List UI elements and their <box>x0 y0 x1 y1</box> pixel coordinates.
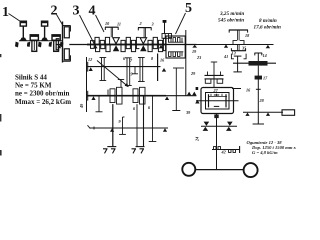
gear 13 lower <box>233 63 241 72</box>
svg-text:ne = 2300 obr/min: ne = 2300 obr/min <box>15 90 69 98</box>
crank pin 5 <box>60 42 64 48</box>
svg-text:14: 14 <box>263 53 267 58</box>
scan artifact left edge 2 <box>0 114 1 122</box>
upper PTO gear cap <box>229 30 248 40</box>
pto input stem above range box <box>163 20 167 34</box>
countershaft right bearing <box>162 68 166 72</box>
pto bearing 1 <box>245 113 249 116</box>
stem down long 4 <box>143 96 145 147</box>
stem with cap at 152 <box>149 96 157 142</box>
arrowhead of diagonal leader <box>125 83 129 87</box>
range box upper gear teeth <box>168 38 183 43</box>
scan artifact left edge 1 <box>0 54 1 57</box>
gearbox housing left wall <box>86 57 88 112</box>
label 5 <box>185 1 192 16</box>
svg-text:8 m/min: 8 m/min <box>259 18 277 24</box>
bearing left of pto gear <box>224 44 228 47</box>
bull gear bowtie left <box>203 122 210 131</box>
gear T1 on main shaft (cap) <box>105 27 119 37</box>
range box lower gear teeth <box>168 52 183 57</box>
pto bearing 2 <box>266 113 270 116</box>
bearing at crank output <box>57 45 61 48</box>
left tick of brake shaft <box>88 125 91 128</box>
svg-text:11: 11 <box>117 22 121 27</box>
svg-text:4: 4 <box>89 4 96 19</box>
label 4 <box>89 4 96 19</box>
bottom shaft right bearing pair <box>187 92 196 96</box>
mesh stub right of crown wheel <box>232 88 241 90</box>
svg-text:Silnik S 44: Silnik S 44 <box>15 74 47 82</box>
brake cross shaft <box>90 127 169 129</box>
intermediate shaft <box>233 62 276 64</box>
final drive end bar <box>239 146 241 153</box>
crank pin 4 <box>49 42 52 47</box>
stem down long 3 <box>136 104 138 147</box>
label 2 <box>51 4 58 19</box>
bull gear cross bar <box>201 125 237 127</box>
tick on brake shaft <box>93 127 95 130</box>
synchronizer sleeve 2 (hourglass) <box>140 38 147 44</box>
engine piston 4 (lower right) with cylinder skirt <box>52 35 60 52</box>
leader line from label 3 <box>80 15 95 44</box>
bevel gear dark block <box>255 76 262 80</box>
brake anchor bar left <box>107 146 116 148</box>
hub block below differential <box>214 115 218 119</box>
svg-text:2: 2 <box>51 4 58 19</box>
differential axle line <box>196 100 239 102</box>
bevel pinion stem above differential <box>208 62 221 88</box>
label 3 <box>73 4 80 19</box>
countershaft small gear T <box>132 67 138 74</box>
svg-text:35: 35 <box>241 46 246 51</box>
tick on vertical shaft <box>256 88 261 90</box>
bottom shaft gear cluster 1 below <box>110 96 122 104</box>
svg-text:29: 29 <box>190 71 196 76</box>
svg-text:49: 49 <box>79 103 84 109</box>
countershaft gear stem pair C (to lower cluster) <box>125 58 132 86</box>
range box housing <box>166 36 185 58</box>
wide gear on intermediate shaft <box>249 61 268 66</box>
svg-text:G = 4,8 kG/m: G = 4,8 kG/m <box>252 150 278 155</box>
bracket below pto gear <box>231 54 246 59</box>
brake shaft bearing left <box>110 128 114 131</box>
bearing far right on pto shaft <box>266 45 270 48</box>
brake hook 3 <box>132 149 137 154</box>
clutch disc lower <box>64 49 69 60</box>
svg-text:3: 3 <box>151 22 154 27</box>
brake anchor bar right <box>136 146 145 148</box>
brake hook 1 <box>103 149 108 154</box>
bottom shaft gear cluster 1 above <box>110 87 122 95</box>
svg-text:Mmax = 26,2 kGm: Mmax = 26,2 kGm <box>15 98 71 106</box>
tiny part labels <box>79 21 268 155</box>
bottom shaft left bearing <box>91 96 95 100</box>
svg-text:1: 1 <box>2 5 9 20</box>
half shaft stem left <box>112 104 114 147</box>
left wheel <box>182 163 195 176</box>
crank pin 2 <box>27 42 30 47</box>
svg-text:5: 5 <box>185 1 192 16</box>
differential side gear right <box>225 94 227 107</box>
differential housing inner <box>206 93 230 110</box>
engine piston 2 (upper right) <box>41 21 48 40</box>
speed text block B <box>254 18 281 31</box>
clutch housing bracket bottom <box>62 55 71 61</box>
differential side gear left <box>208 94 210 107</box>
svg-text:3: 3 <box>73 4 80 19</box>
svg-text:3,25 m/min: 3,25 m/min <box>219 11 244 17</box>
countershaft right end bar <box>157 54 159 82</box>
leader line from label 2 <box>57 15 63 25</box>
leader line from label 1 <box>9 14 21 22</box>
svg-text:13: 13 <box>232 51 236 56</box>
clutch housing bracket top <box>62 26 71 32</box>
bearing below shaft at box exit <box>192 45 197 48</box>
leader line from label 4 <box>96 15 105 32</box>
leader line from label 5 <box>176 13 186 34</box>
speed text block A <box>218 11 244 24</box>
countershaft gear stem pair A <box>100 58 107 81</box>
countershaft <box>87 66 161 68</box>
svg-text:28: 28 <box>259 98 265 103</box>
engine piston 1 (upper left) <box>20 21 27 40</box>
bottom shaft gear cluster 2 above <box>133 87 145 95</box>
clutch disc upper <box>64 27 69 38</box>
svg-text:2: 2 <box>139 21 142 26</box>
gear 14 upper T <box>254 53 262 61</box>
crown wheel comb on differential <box>205 75 224 83</box>
scan artifact left edge 3 <box>0 150 2 156</box>
bearing under thick hub end <box>165 96 169 100</box>
gear T2 on main shaft (cap) <box>138 28 152 38</box>
svg-text:Ne = 75 KM: Ne = 75 KM <box>15 82 52 90</box>
svg-text:27: 27 <box>213 88 219 93</box>
svg-text:41: 41 <box>223 54 228 59</box>
brake hook 2 <box>111 149 116 154</box>
bottom shaft gear cluster 2 below <box>133 96 145 104</box>
blob left of differential <box>196 87 199 90</box>
main shaft gear comb above <box>95 37 166 44</box>
bull gear bowtie right <box>226 122 233 131</box>
inner comb of differential <box>208 94 227 97</box>
rear housing wall <box>185 30 187 96</box>
crank pin 1 <box>15 42 19 48</box>
small stem up on bottom shaft <box>107 90 109 96</box>
flywheel disc <box>62 22 64 63</box>
pto pass-through stub <box>173 67 184 69</box>
bearing at diff left <box>195 100 199 104</box>
tyre data text block <box>247 140 297 155</box>
crankshaft datum line <box>19 40 62 42</box>
short stem with bottom cap <box>119 117 126 134</box>
countershaft gear stem pair B <box>138 58 145 82</box>
crank output stub into clutch <box>56 44 63 46</box>
differential spider top <box>214 94 219 96</box>
svg-text:17,6 obr/min: 17,6 obr/min <box>254 25 281 31</box>
main shaft thick section <box>87 44 166 46</box>
svg-text:12: 12 <box>88 57 92 62</box>
flange at shaft <box>233 41 244 45</box>
rear axle <box>195 169 243 171</box>
engine piston 3 (lower left) with cylinder skirt <box>30 35 38 52</box>
main shaft gear comb below <box>96 45 166 52</box>
diagonal leader to lower synchro <box>97 61 128 87</box>
right wheel <box>244 163 258 177</box>
label 1 <box>2 5 9 20</box>
small hanger tee above cluster1 <box>118 80 124 88</box>
bottom shaft left bearing bar <box>87 91 89 101</box>
brake hook 4 <box>140 149 145 154</box>
bearing main shaft right of combs <box>159 45 163 48</box>
crank pin 3 <box>38 42 42 48</box>
countershaft left bearing bar <box>87 62 89 72</box>
final drive comb lower <box>229 150 236 153</box>
small gear above range box <box>162 34 172 39</box>
final drive gear bar <box>212 149 240 151</box>
cap of stem <box>172 110 180 112</box>
belt pulley <box>282 110 295 116</box>
engine data text block <box>15 74 71 107</box>
pilot bearing bracket on crank <box>56 39 59 50</box>
stem with cap near left <box>96 96 103 112</box>
stem below differential <box>216 114 218 170</box>
final drive comb upper <box>214 147 221 150</box>
gear 13 upper <box>234 56 242 63</box>
vertical pto shaft <box>257 66 259 113</box>
svg-text:24: 24 <box>195 137 200 142</box>
stem below pto line with cap <box>253 112 264 124</box>
differential housing outer <box>201 88 234 114</box>
bottom shaft thick hub <box>87 95 166 97</box>
svg-text:545 obr/min: 545 obr/min <box>218 18 244 24</box>
small gear stub left of comb row <box>91 41 95 45</box>
bottom shaft <box>87 95 197 97</box>
differential spider bottom <box>214 105 219 107</box>
countershaft left bearing <box>89 67 93 71</box>
stem from stub down <box>175 68 177 111</box>
svg-text:39: 39 <box>185 110 191 115</box>
lower pto gear cap <box>231 45 246 51</box>
svg-text:42: 42 <box>221 150 226 155</box>
main gearbox input shaft <box>69 44 196 46</box>
bearing main shaft left <box>93 45 97 48</box>
brake shaft bearing right <box>163 128 167 131</box>
svg-text:23: 23 <box>196 55 201 60</box>
pto output line <box>243 111 283 113</box>
output / PTO shaft to rear <box>197 44 274 46</box>
synchronizer sleeve 1 (hourglass) <box>113 38 120 44</box>
